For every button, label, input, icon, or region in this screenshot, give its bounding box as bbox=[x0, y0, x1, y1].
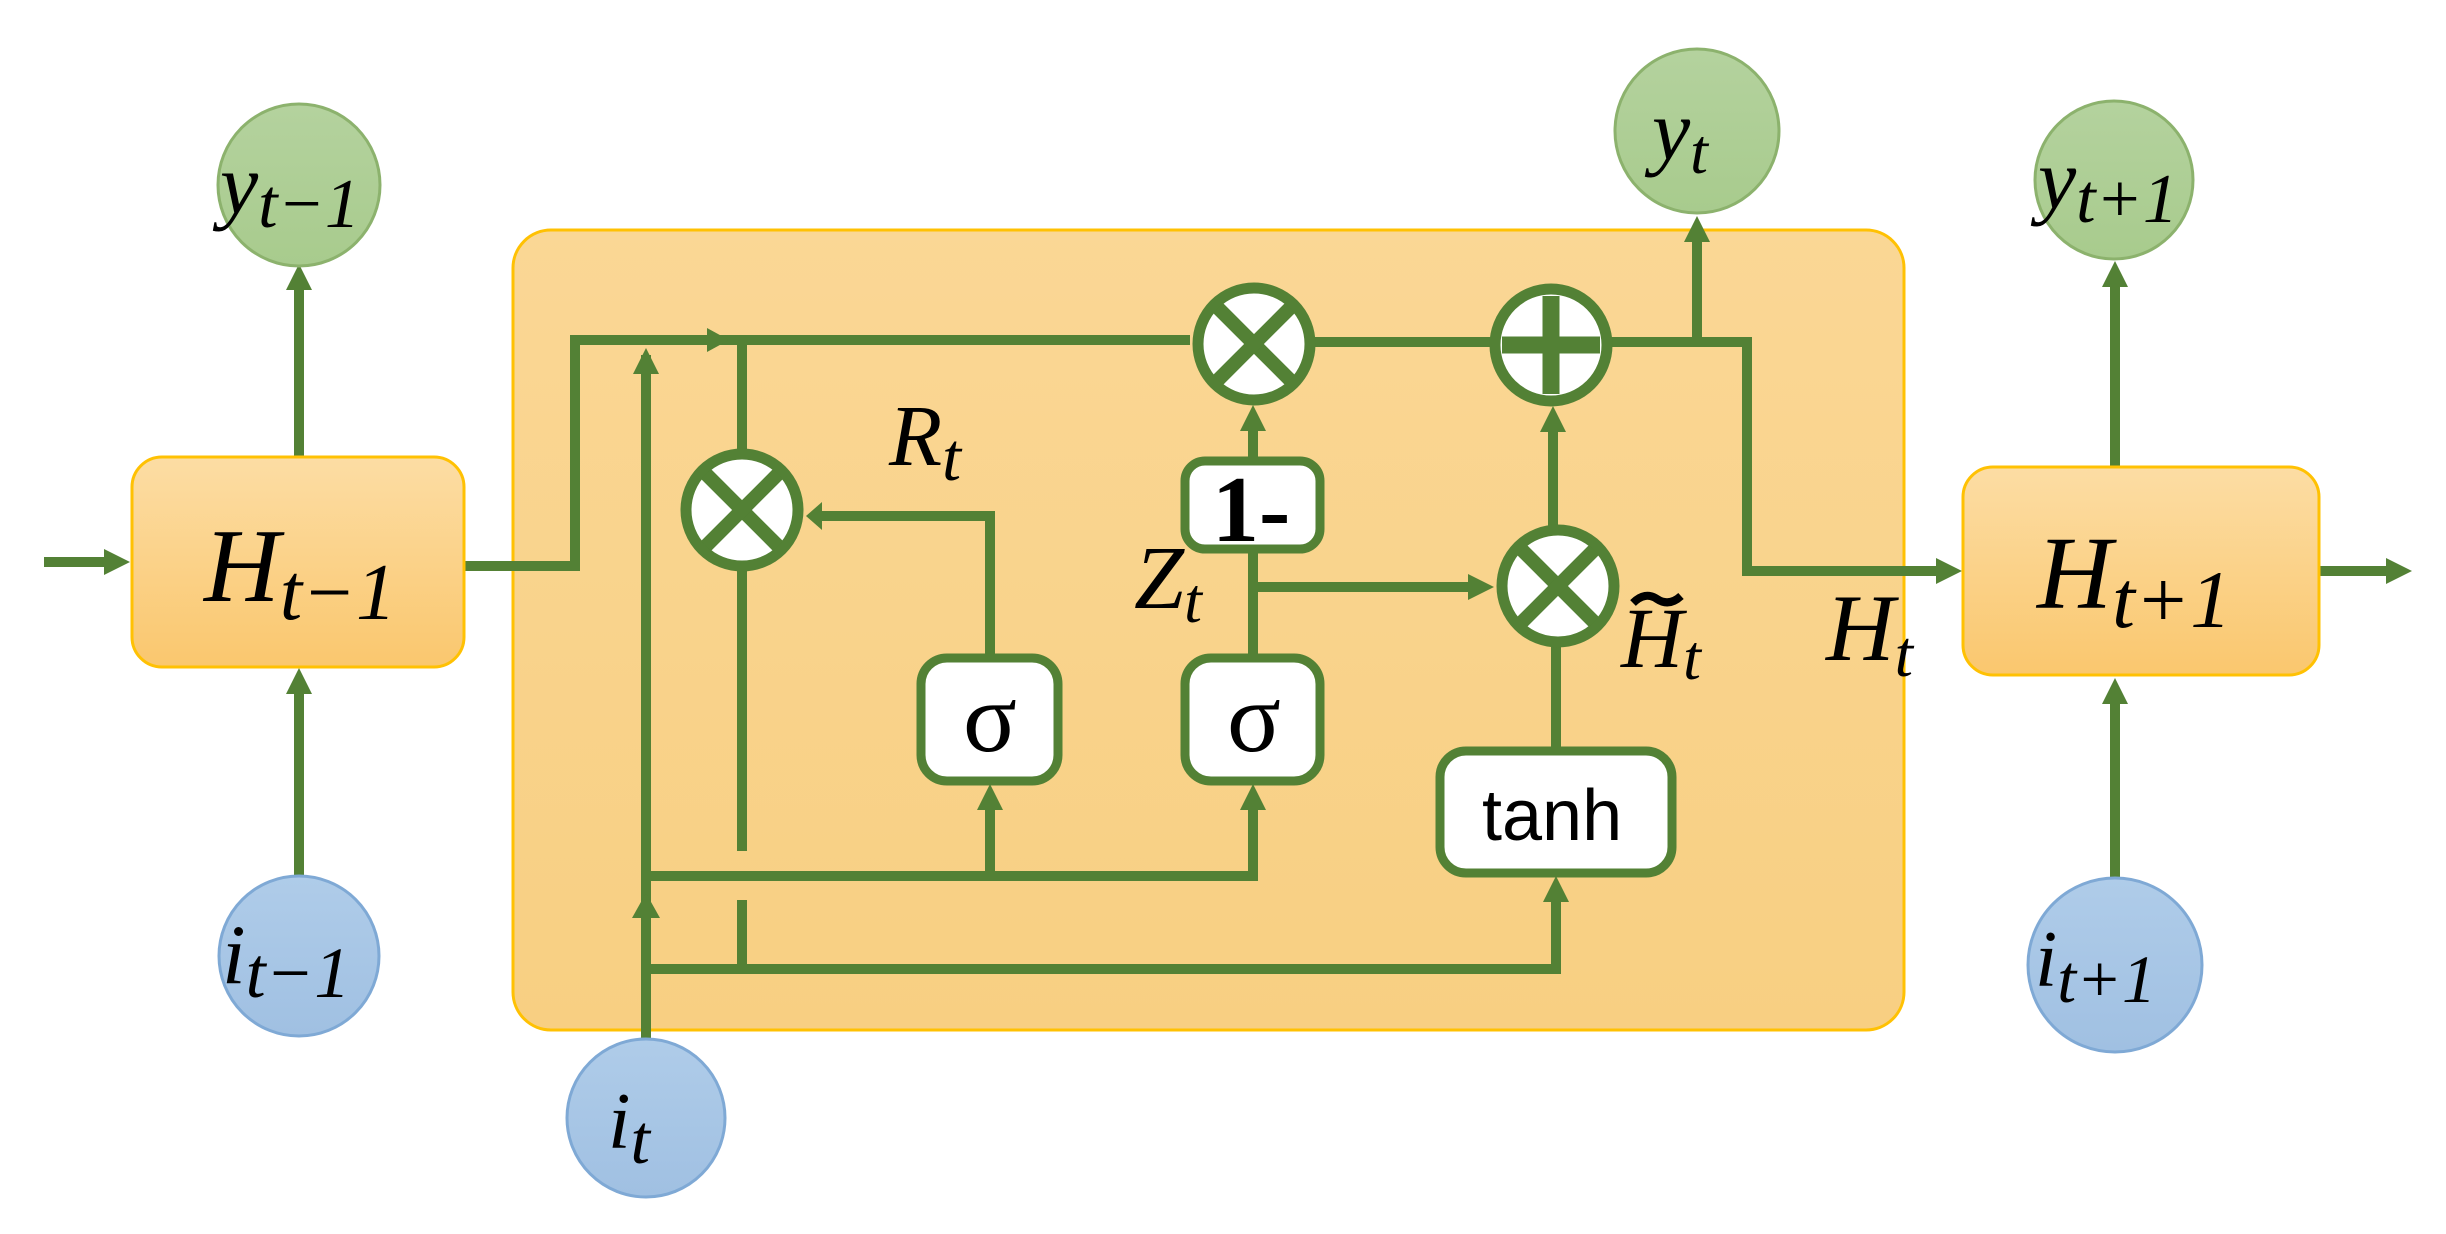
svg-text:1-: 1- bbox=[1212, 458, 1290, 562]
svg-text:σ: σ bbox=[1227, 662, 1281, 773]
svg-text:tanh: tanh bbox=[1482, 776, 1622, 856]
svg-text:σ: σ bbox=[963, 662, 1017, 773]
